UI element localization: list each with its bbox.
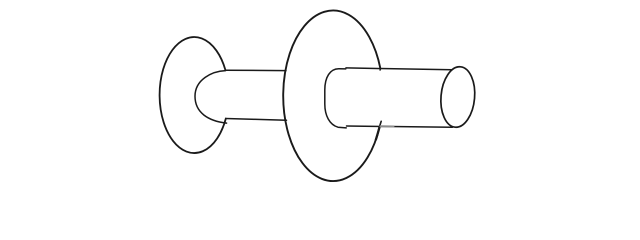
neck bottom line <box>226 119 287 121</box>
flange edge overshoot bottom <box>379 121 381 127</box>
shaft right end ellipse <box>438 65 477 128</box>
shaft left end cap <box>325 69 346 128</box>
shaft bottom gray overdraw <box>381 125 394 127</box>
flange edge bold segment below shaft <box>376 127 380 140</box>
large center flange ellipse <box>283 10 380 181</box>
left head flange ellipse <box>160 37 226 153</box>
shaft bottom line <box>347 126 453 127</box>
neck top line <box>226 69 287 71</box>
shaft top line <box>346 68 452 70</box>
left head cap arc <box>195 71 227 124</box>
flange edge overshoot top <box>379 69 381 70</box>
